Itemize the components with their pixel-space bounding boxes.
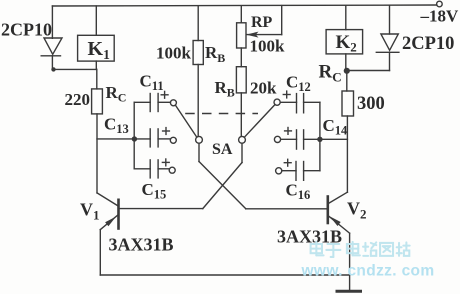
- watermark line 1 (electronic circuit site): [311, 242, 410, 257]
- wire C13 branch: [97, 138, 134, 140]
- wire C14 branch: [320, 138, 348, 140]
- resistor RC 220: [92, 69, 103, 114]
- wire left capacitor bus: [133, 102, 135, 169]
- node contact C13: [170, 137, 176, 143]
- potentiometer RP 100k: [237, 6, 282, 48]
- svg-text:2CP10: 2CP10: [402, 34, 454, 54]
- capacitor C16: [282, 159, 320, 180]
- svg-text:100k: 100k: [250, 37, 286, 56]
- switch SA gang dashed link: [185, 113, 258, 115]
- svg-text:2CP10: 2CP10: [1, 20, 52, 40]
- diode VD2 2CP10 (right): [376, 5, 399, 70]
- node C14 bus: [317, 137, 322, 142]
- relay K1: [78, 6, 115, 69]
- node contact C11: [170, 100, 176, 106]
- capacitor C15: [134, 159, 169, 178]
- node diode/K1: [51, 67, 55, 71]
- resistor RB 100k: [193, 6, 203, 136]
- transistor V2 3AX31B: [328, 192, 350, 290]
- svg-text:20k: 20k: [250, 79, 277, 98]
- switch SA left arm: [176, 106, 197, 137]
- svg-text:–18V: –18V: [420, 7, 460, 26]
- capacitor C14: [281, 128, 320, 150]
- node contact C15: [169, 167, 175, 173]
- capacitor C12: [280, 91, 320, 113]
- wire right capacitor bus: [319, 102, 321, 170]
- node contact C12: [274, 99, 280, 105]
- svg-text:www. cndzz. com: www. cndzz. com: [301, 263, 435, 280]
- svg-text:100k: 100k: [156, 44, 192, 63]
- wire left pole to V2 base (cross): [199, 143, 328, 209]
- switch SA left pole: [196, 136, 203, 143]
- wire top -18V bus: [52, 5, 436, 6]
- switch SA right pole: [239, 136, 246, 143]
- node K2/diode/RC: [344, 68, 350, 74]
- svg-text:3AX31B: 3AX31B: [109, 235, 174, 255]
- terminal -18V: [437, 1, 443, 7]
- node contact C14: [274, 136, 280, 142]
- node C13 bus: [132, 136, 137, 141]
- wire junction to diode: [346, 70, 389, 72]
- wire V1 collector: [96, 114, 98, 193]
- transistor V1 3AX31B: [97, 193, 119, 275]
- diode VD1 2CP10 (left): [41, 6, 62, 69]
- svg-text:RP: RP: [251, 14, 273, 31]
- wire V2 collector: [346, 116, 348, 192]
- resistor RC 300: [342, 71, 354, 117]
- svg-text:SA: SA: [212, 141, 233, 158]
- svg-text:300: 300: [357, 94, 385, 114]
- switch SA right arm: [244, 105, 275, 138]
- svg-text:220: 220: [65, 90, 91, 109]
- node contact C16: [276, 168, 282, 174]
- wire bottom bus: [100, 274, 349, 276]
- capacitor C11: [134, 91, 170, 111]
- ground: [337, 291, 361, 294]
- relay K2: [326, 6, 363, 71]
- capacitor C13: [134, 128, 170, 147]
- wire diode-K1 junction: [52, 68, 96, 70]
- resistor RB 20k: [236, 48, 246, 136]
- wire right pole to V1 base (cross): [119, 143, 243, 208]
